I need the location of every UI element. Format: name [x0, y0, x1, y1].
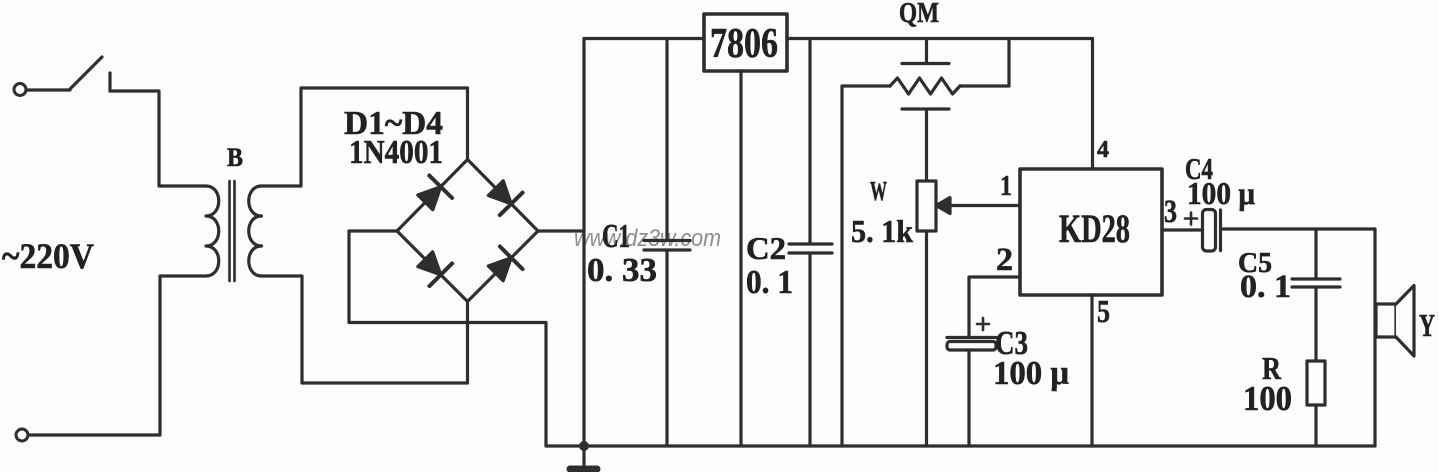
- svg-text:5. 1k: 5. 1k: [851, 213, 913, 249]
- bridge diamond: [397, 160, 538, 302]
- wire pin 3 to C4: [1162, 228, 1202, 231]
- switch fixed contact: [108, 73, 111, 91]
- wire wiper to pin 1: [948, 204, 1020, 207]
- wire bridge left node to ground rail: [349, 231, 546, 446]
- transformer B primary winding: [206, 186, 219, 276]
- capacitor C1: [644, 39, 690, 447]
- svg-text:Y: Y: [1419, 307, 1435, 343]
- svg-text:QM: QM: [899, 0, 939, 29]
- resistor R body: [1307, 361, 1325, 405]
- transformer B core: [230, 181, 235, 281]
- gas sensor QM: [890, 39, 960, 182]
- svg-text:4: 4: [1097, 137, 1109, 163]
- svg-text:W: W: [870, 176, 887, 206]
- transformer B secondary winding: [249, 186, 262, 276]
- svg-text:5: 5: [1097, 293, 1110, 329]
- svg-text:~220V: ~220V: [2, 236, 94, 276]
- svg-text:0. 33: 0. 33: [587, 252, 657, 289]
- wire: [28, 88, 70, 91]
- wire pin 2 to C3: [969, 277, 1020, 338]
- svg-text:C1: C1: [602, 218, 630, 255]
- wire bridge right node to +V rail: [538, 229, 584, 232]
- potentiometer W body: [917, 181, 936, 231]
- svg-text:www.dz3w.com: www.dz3w.com: [574, 225, 721, 252]
- wire heater right to +V rail: [960, 39, 1009, 87]
- diode D3: [414, 248, 452, 286]
- svg-text:B: B: [227, 143, 243, 172]
- IC KD28 box: [1020, 169, 1162, 295]
- AC input terminal top: [14, 84, 26, 96]
- capacitor C2: [789, 39, 832, 447]
- plus sign C4: [1185, 213, 1197, 225]
- junction dot: [579, 441, 589, 451]
- svg-text:2: 2: [996, 242, 1013, 278]
- svg-text:0. 1: 0. 1: [1240, 269, 1291, 305]
- svg-text:KD28: KD28: [1059, 206, 1130, 251]
- diode D2: [484, 177, 522, 215]
- loudspeaker Y driver: [1376, 304, 1396, 337]
- svg-text:C2: C2: [746, 230, 786, 266]
- ground rail: [546, 444, 1375, 447]
- ground symbol: [582, 446, 585, 466]
- svg-text:1N4001: 1N4001: [349, 134, 443, 171]
- AC input terminal bottom: [16, 429, 28, 441]
- wire secondary top to bridge apex: [262, 88, 468, 186]
- wire R to ground: [1314, 405, 1317, 446]
- diode D4: [484, 247, 522, 285]
- wire heater left to ground: [842, 86, 890, 446]
- svg-text:0. 1: 0. 1: [746, 264, 793, 301]
- pot wiper arrow: [936, 198, 950, 214]
- svg-text:7806: 7806: [710, 21, 778, 67]
- wire pot bottom to ground: [925, 231, 928, 446]
- wire right rail: [1373, 229, 1376, 446]
- capacitor C4: [1203, 210, 1216, 252]
- wire: [110, 91, 206, 186]
- capacitor C5: [1292, 229, 1340, 361]
- capacitor C3: [947, 336, 996, 339]
- svg-text:100: 100: [1243, 379, 1292, 418]
- wire top rail: [584, 37, 704, 40]
- wire 7806 ground pin: [739, 71, 742, 446]
- svg-text:3: 3: [1164, 194, 1177, 230]
- wire pin 5 to ground: [1090, 295, 1093, 446]
- svg-text:1: 1: [1000, 170, 1012, 202]
- wire C4 to speaker rail: [1222, 227, 1375, 230]
- wire C3 to ground: [967, 350, 970, 446]
- plus sign C3: [977, 318, 989, 330]
- loudspeaker Y horn: [1396, 286, 1414, 357]
- wire secondary bottom to bridge bottom node: [262, 276, 468, 383]
- wire top rail right and pin4 drop: [787, 39, 1093, 170]
- svg-text:100 μ: 100 μ: [1187, 175, 1255, 211]
- diode D1: [414, 176, 452, 214]
- regulator U1 7806 box: [704, 14, 787, 71]
- svg-text:100 μ: 100 μ: [993, 355, 1069, 392]
- wire +V rail vertical: [582, 39, 585, 447]
- switch S blade: [70, 57, 102, 89]
- wire: [29, 276, 206, 435]
